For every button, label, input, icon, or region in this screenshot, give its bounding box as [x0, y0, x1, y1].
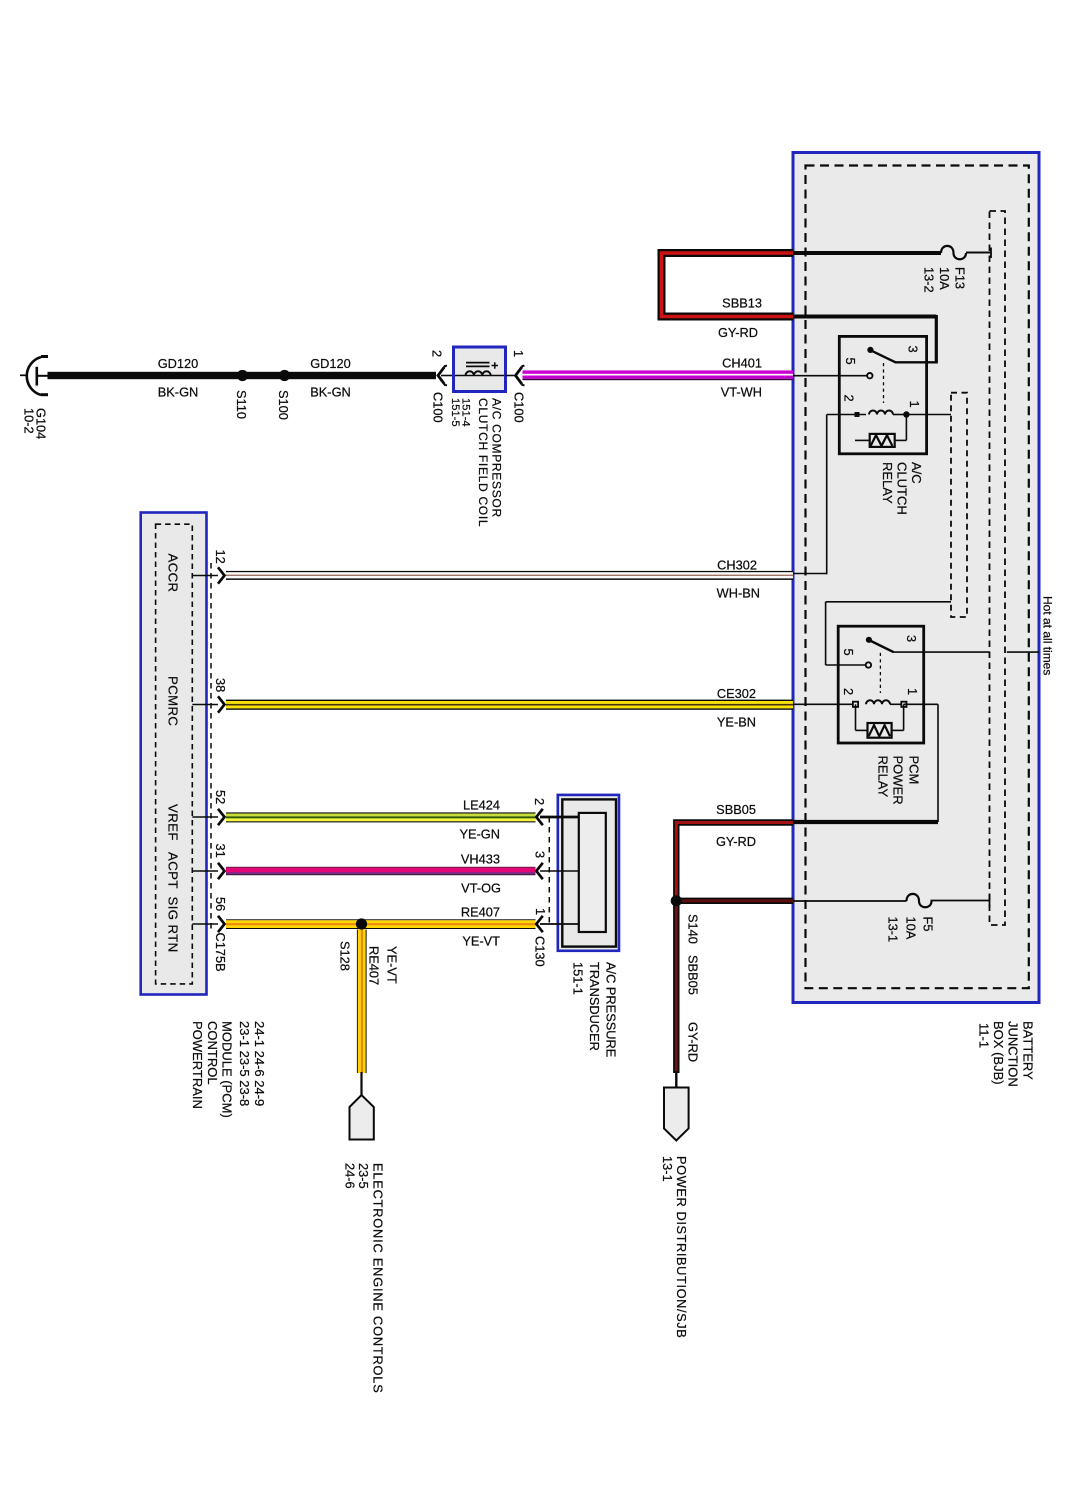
wire pin 1 to BJB connector — [906, 414, 951, 416]
svg-text:13-1: 13-1 — [660, 1156, 675, 1182]
svg-text:ACPT: ACPT — [166, 852, 181, 889]
svg-text:A/C: A/C — [909, 462, 924, 484]
off-page arrow POWER DISTRIBUTION — [675, 1071, 677, 1089]
pin 5 wire from CH401 — [793, 375, 867, 377]
wire VH433 VT-OG — [226, 852, 536, 896]
wire F5 to hot bus — [931, 900, 990, 902]
pin 2 terminal — [853, 702, 858, 707]
fuse F13 element — [941, 246, 966, 259]
svg-text:RELAY: RELAY — [880, 462, 895, 504]
wire F13 to hot bus — [966, 252, 991, 254]
pivot — [867, 347, 873, 353]
svg-text:SIG RTN: SIG RTN — [166, 897, 181, 953]
svg-text:S140: S140 — [686, 914, 701, 944]
connector C130 dashed boundary — [548, 817, 550, 927]
svg-text:GD120: GD120 — [310, 356, 351, 371]
relay coil — [869, 411, 893, 415]
svg-text:JUNCTION: JUNCTION — [1006, 1021, 1021, 1087]
wire RE407 YE-VT — [226, 919, 536, 920]
wire CH302 WH-BN — [226, 558, 793, 601]
wire CH302 WH-BN — [226, 571, 793, 572]
pin 3 wire to hot bus — [893, 651, 990, 653]
svg-text:YE-VT: YE-VT — [462, 934, 500, 949]
svg-text:S110: S110 — [234, 390, 249, 419]
svg-text:SBB13: SBB13 — [722, 296, 762, 311]
svg-text:CLUTCH: CLUTCH — [895, 462, 910, 515]
svg-text:CH401: CH401 — [722, 356, 762, 371]
wire VH433 VT-OG — [226, 866, 536, 869]
pin 1 — [536, 916, 543, 932]
coil wire row — [827, 414, 866, 416]
svg-text:56: 56 — [213, 897, 228, 911]
wire SBB13 inside BJB to A/C clutch relay — [793, 315, 938, 362]
wire CE302 inside BJB to pin 2 — [793, 703, 853, 705]
A/C compressor clutch field coil — [449, 347, 506, 527]
splice S140 — [671, 895, 682, 906]
pin 3 — [536, 863, 543, 879]
wire CE302 YE-BN — [226, 700, 793, 701]
wire GD120 BK-GN — [48, 372, 437, 379]
svg-text:151-5: 151-5 — [449, 398, 461, 427]
svg-text:VREF: VREF — [166, 804, 181, 841]
BJB inner dashed boundary — [806, 166, 1029, 989]
svg-text:1: 1 — [533, 908, 548, 915]
svg-text:10A: 10A — [937, 267, 952, 290]
wire RE407 YE-VT vertical to EEC — [343, 930, 400, 1394]
svg-text:WH-BN: WH-BN — [717, 586, 760, 601]
switch arm — [870, 350, 895, 362]
svg-text:Hot at all times: Hot at all times — [1041, 596, 1055, 675]
splice S128 — [356, 918, 367, 929]
svg-text:S128: S128 — [338, 941, 353, 971]
svg-text:TRANSDUCER: TRANSDUCER — [587, 962, 602, 1051]
svg-text:C100: C100 — [431, 392, 446, 423]
wire SBB13 GY-RD loop — [662, 253, 794, 340]
wire CH401 VT-WH — [523, 370, 794, 374]
label POWERTRAIN CONTROL MODULE (PCM) — [190, 1021, 267, 1118]
svg-text:11-1: 11-1 — [977, 1023, 992, 1048]
svg-text:BOX (BJB): BOX (BJB) — [991, 1021, 1006, 1085]
svg-text:BK-GN: BK-GN — [158, 385, 199, 400]
svg-text:PCMRC: PCMRC — [166, 676, 181, 726]
wire SBB05 feed to fuse F5 — [793, 900, 907, 902]
pin 1 terminal — [901, 702, 906, 707]
svg-text:ELECTRONIC ENGINE CONTROLS: ELECTRONIC ENGINE CONTROLS — [371, 1163, 386, 1394]
wire SBB05 GY-RD to fuse F5 — [676, 898, 793, 904]
pin 2 — [536, 809, 543, 825]
svg-text:23-1 23-5 23-8: 23-1 23-5 23-8 — [237, 1021, 252, 1106]
connector C100 pin 1 — [506, 350, 527, 423]
fuse F13 10A 13-2 — [793, 246, 991, 293]
svg-text:2: 2 — [532, 798, 547, 805]
relay feed dashed connector — [951, 393, 967, 617]
wire CE302 YE-BN — [226, 686, 793, 730]
svg-text:1: 1 — [907, 401, 922, 408]
svg-text:BK-GN: BK-GN — [310, 385, 351, 400]
svg-text:31: 31 — [213, 844, 228, 858]
svg-text:C130: C130 — [533, 936, 548, 967]
PCM pin 38 — [192, 678, 228, 713]
svg-text:BATTERY: BATTERY — [1021, 1021, 1036, 1080]
wire RE407 YE-VT vertical — [357, 930, 358, 1074]
svg-text:CLUTCH FIELD COIL: CLUTCH FIELD COIL — [476, 398, 490, 527]
svg-text:YE-BN: YE-BN — [717, 715, 756, 730]
svg-text:MODULE (PCM): MODULE (PCM) — [220, 1021, 235, 1118]
svg-text:3: 3 — [904, 635, 919, 642]
coil winding — [466, 371, 491, 375]
wire RE407 YE-VT — [226, 905, 536, 971]
PCM pin 12 — [192, 550, 228, 584]
svg-text:GY-RD: GY-RD — [686, 1022, 701, 1062]
fuse F5 element — [907, 894, 932, 907]
svg-text:VT-WH: VT-WH — [721, 385, 762, 400]
svg-text:10-2: 10-2 — [22, 408, 37, 434]
svg-text:ACCR: ACCR — [166, 554, 181, 593]
connector C100 pin 2 — [430, 350, 454, 423]
wire GD120 BK-GN — [48, 356, 437, 420]
wire LE424 YE-GN — [226, 812, 536, 813]
svg-text:A/C COMPRESSOR: A/C COMPRESSOR — [489, 398, 503, 518]
svg-text:SBB05: SBB05 — [716, 802, 756, 817]
ground G104 — [20, 357, 49, 440]
svg-text:151-1: 151-1 — [571, 962, 586, 995]
wire CH302 inside BJB — [793, 415, 828, 575]
PCM power relay — [793, 626, 1039, 804]
core lines — [466, 362, 490, 364]
svg-text:SBB05: SBB05 — [686, 955, 701, 995]
relay K2 PCM power relay box — [838, 626, 924, 743]
svg-text:PCM: PCM — [907, 756, 922, 785]
fuse F5 10A 13-1 — [793, 894, 990, 942]
svg-text:S100: S100 — [276, 390, 291, 420]
svg-text:VH433: VH433 — [461, 852, 500, 867]
polarity + — [492, 365, 499, 367]
svg-text:YE-VT: YE-VT — [385, 946, 400, 984]
svg-text:F13: F13 — [953, 267, 968, 289]
PCM pin 56 — [192, 897, 228, 932]
svg-text:YE-GN: YE-GN — [459, 827, 500, 842]
relay K1 A/C clutch relay box — [839, 336, 926, 453]
svg-text:F5: F5 — [921, 917, 936, 932]
wire pin 1 to SBB05 — [904, 703, 938, 705]
svg-text:1: 1 — [905, 688, 920, 695]
svg-text:POWERTRAIN: POWERTRAIN — [190, 1021, 205, 1109]
svg-text:C100: C100 — [512, 392, 527, 423]
svg-text:5: 5 — [841, 649, 856, 656]
svg-text:RE407: RE407 — [367, 946, 382, 985]
svg-text:GD120: GD120 — [158, 356, 199, 371]
svg-text:24-6: 24-6 — [343, 1163, 358, 1189]
svg-text:38: 38 — [213, 678, 228, 692]
wire SBB05 GY-RD upper segment — [676, 823, 793, 901]
svg-text:3: 3 — [533, 851, 548, 858]
svg-text:POWER DISTRIBUTION/SJB: POWER DISTRIBUTION/SJB — [674, 1156, 689, 1338]
pin 1 terminal — [903, 411, 909, 417]
svg-text:GY-RD: GY-RD — [718, 325, 758, 340]
fuse bus dashed connector — [990, 211, 1006, 925]
svg-text:CE302: CE302 — [717, 686, 756, 701]
A/C clutch relay — [793, 336, 951, 514]
A/C pressure transducer — [532, 795, 619, 1057]
suppression resistor — [905, 415, 907, 441]
svg-text:RELAY: RELAY — [876, 756, 891, 798]
powertrain control module PCM — [141, 513, 228, 995]
svg-text:5: 5 — [843, 358, 858, 365]
wire SBB13 feed to fuse F13 — [793, 251, 941, 255]
svg-text:24-1 24-6 24-9: 24-1 24-6 24-9 — [252, 1021, 267, 1106]
svg-text:CONTROL: CONTROL — [205, 1021, 220, 1085]
wire SBB05 inside BJB — [793, 704, 938, 822]
wire CH401 VT-WH — [523, 356, 794, 400]
off-page arrow ELECTRONIC ENGINE CONTROLS — [360, 1072, 362, 1096]
svg-text:12: 12 — [213, 550, 228, 564]
svg-text:LE424: LE424 — [463, 798, 500, 813]
svg-text:1: 1 — [511, 350, 526, 357]
wire LE424 YE-GN — [226, 798, 536, 842]
suppression resistor — [855, 704, 857, 730]
svg-text:2: 2 — [842, 395, 857, 402]
svg-text:VT-OG: VT-OG — [461, 881, 501, 896]
svg-text:A/C PRESSURE: A/C PRESSURE — [604, 962, 619, 1057]
connector C175B dashed boundary — [210, 563, 212, 931]
wire SBB13 GY-RD loop — [662, 253, 794, 317]
splice S110 — [237, 370, 248, 381]
svg-text:C175B: C175B — [213, 933, 228, 972]
PCM pin 52 — [192, 790, 228, 825]
PCM pin 31 — [192, 844, 228, 880]
svg-text:2: 2 — [841, 688, 856, 695]
svg-text:RE407: RE407 — [461, 905, 500, 920]
PCM power relay feed from connector — [826, 602, 951, 665]
svg-text:10A: 10A — [904, 917, 919, 940]
wire SBB05 GY-RD loop — [660, 802, 793, 1338]
svg-text:3: 3 — [905, 346, 920, 353]
splice S100 — [279, 370, 290, 381]
armature dashed link — [883, 363, 885, 403]
svg-text:CH302: CH302 — [717, 558, 757, 573]
svg-text:13-2: 13-2 — [922, 267, 937, 293]
wire SBB05 GY-RD down to power distribution — [673, 901, 679, 1073]
pin 2 terminal — [855, 412, 860, 417]
svg-text:52: 52 — [213, 790, 228, 804]
svg-text:13-1: 13-1 — [886, 917, 901, 943]
battery junction box BJB — [793, 153, 1055, 1087]
svg-text:POWER: POWER — [891, 756, 906, 805]
svg-text:2: 2 — [430, 350, 445, 357]
svg-text:GY-RD: GY-RD — [716, 834, 756, 849]
